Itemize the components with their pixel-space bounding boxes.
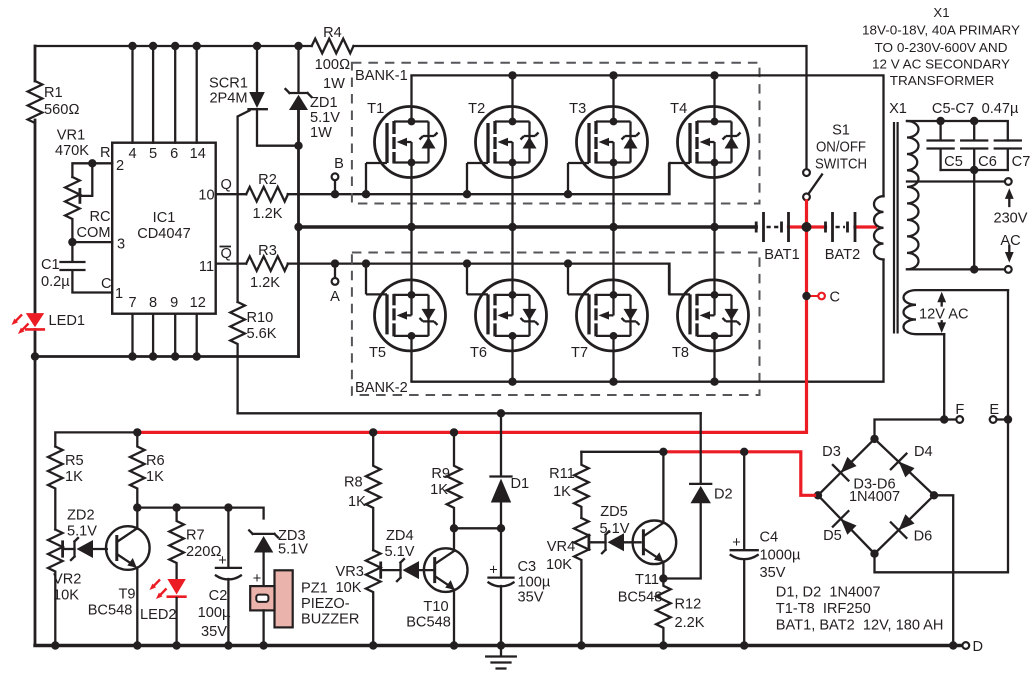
svg-text:6: 6: [170, 146, 178, 162]
svg-text:T9: T9: [118, 587, 135, 603]
svg-text:1.2K: 1.2K: [250, 275, 280, 291]
svg-text:12: 12: [190, 295, 206, 311]
resistor R7 220ohm: [169, 508, 184, 579]
zener ZD2 5.1V: [71, 538, 78, 560]
svg-text:ZD5: ZD5: [600, 504, 628, 520]
svg-text:11: 11: [199, 259, 214, 275]
svg-text:BAT2: BAT2: [825, 247, 860, 263]
resistor R1: [28, 81, 43, 123]
svg-text:ZD4: ZD4: [386, 528, 414, 544]
svg-text:470K: 470K: [55, 143, 89, 159]
SCR1 2P4M: [256, 46, 258, 92]
svg-text:T10: T10: [423, 599, 448, 615]
LED1: [26, 313, 44, 327]
svg-text:SWITCH: SWITCH: [815, 156, 867, 172]
svg-text:T4: T4: [670, 101, 687, 117]
svg-text:T5: T5: [369, 345, 386, 361]
svg-text:D4: D4: [914, 444, 933, 460]
svg-text:X1: X1: [889, 101, 907, 117]
transformer X1 primary winding: [874, 196, 884, 259]
node C terminal: [807, 295, 818, 297]
svg-text:Q: Q: [221, 177, 232, 193]
potentiometer VR4 10K: [574, 518, 589, 646]
svg-text:C: C: [830, 290, 841, 306]
svg-text:35V: 35V: [518, 590, 544, 606]
svg-text:VR4: VR4: [547, 539, 575, 555]
svg-text:TRANSFORMER: TRANSFORMER: [890, 73, 995, 88]
wire: T10 collector to D1/C3 node: [454, 527, 501, 529]
svg-text:D2: D2: [714, 487, 733, 503]
svg-text:T3: T3: [569, 101, 586, 117]
svg-text:S1: S1: [832, 123, 850, 139]
potentiometer VR1 470K: [65, 177, 80, 242]
wire: pin 3 RC COM: [72, 241, 112, 243]
transformer X1 12V AC winding: [904, 290, 1009, 334]
svg-text:1W: 1W: [323, 76, 345, 92]
zener ZD1 5.1V 1W: [286, 46, 312, 97]
buzzer PZ1: [275, 570, 293, 627]
svg-text:VR3: VR3: [336, 564, 364, 580]
transistor T3: [568, 75, 648, 227]
svg-text:PZ1: PZ1: [301, 581, 328, 597]
LED2: [167, 579, 185, 595]
svg-text:0.2µ: 0.2µ: [41, 274, 70, 290]
resistor R6 1K: [130, 432, 145, 507]
capacitor C1 0.2u: [61, 242, 113, 292]
svg-text:5.1V: 5.1V: [67, 524, 97, 540]
IC1 CD4047: [112, 143, 216, 314]
resistor R2 1.2K: [246, 187, 288, 202]
svg-text:T7: T7: [571, 345, 588, 361]
diode D1: [491, 413, 512, 476]
svg-text:5.1V: 5.1V: [599, 521, 629, 537]
node D terminal: [962, 642, 969, 649]
wire: bank2 drain rail to transformer primary bottom: [412, 260, 884, 382]
svg-text:R2: R2: [258, 172, 277, 188]
svg-text:+: +: [218, 553, 227, 569]
wire: secondary top to capacitor bank: [907, 121, 1008, 141]
svg-text:C5-C7: C5-C7: [932, 101, 974, 117]
svg-text:D1, D2 1N4007: D1, D2 1N4007: [776, 585, 881, 601]
svg-text:BANK-2: BANK-2: [355, 380, 408, 396]
svg-text:D6: D6: [914, 529, 933, 545]
capacitor C2 100u 35V: [216, 508, 241, 568]
capacitor C3 100u 35V: [489, 528, 514, 577]
wire: 12V winding bottom to node F and bridge AC input: [875, 334, 945, 439]
svg-text:AC: AC: [1000, 233, 1020, 249]
svg-text:10K: 10K: [336, 580, 362, 596]
svg-text:220Ω: 220Ω: [186, 544, 222, 560]
svg-text:0.47µ: 0.47µ: [982, 101, 1019, 117]
svg-text:2.2K: 2.2K: [675, 615, 705, 631]
node: junction dots on top rail: [128, 42, 136, 50]
svg-text:E: E: [989, 402, 999, 418]
wire: secondary bottom to output terminal: [907, 268, 1005, 270]
svg-text:5.1V: 5.1V: [385, 544, 415, 560]
svg-text:2P4M: 2P4M: [209, 91, 247, 107]
svg-text:D: D: [973, 639, 984, 655]
BANK-1 dashed box: [352, 63, 760, 204]
svg-text:100µ: 100µ: [518, 575, 551, 591]
svg-text:1K: 1K: [430, 482, 448, 498]
svg-text:+: +: [253, 571, 262, 587]
diode D5: [833, 511, 860, 538]
wire: capacitor bottoms to secondary bottom: [941, 170, 1008, 269]
svg-text:1.2K: 1.2K: [252, 206, 282, 222]
wire: pin 10 Q output through R2 to node B: [216, 193, 247, 195]
svg-text:10: 10: [198, 188, 214, 204]
node: junction dots on VSS rail: [31, 352, 39, 360]
wire: R5 top to red bus node: [55, 432, 137, 446]
svg-text:VR1: VR1: [57, 128, 85, 144]
capacitor C5: [928, 121, 954, 170]
wire: red charger positive to bridge: [663, 452, 814, 496]
svg-text:560Ω: 560Ω: [44, 102, 80, 118]
ground symbol: [486, 646, 516, 669]
svg-text:3: 3: [117, 237, 125, 253]
svg-text:D5: D5: [823, 528, 842, 544]
wire: pin 2 to VR1 node: [72, 163, 112, 177]
resistor R5 1K: [48, 447, 63, 530]
svg-text:R9: R9: [431, 466, 450, 482]
svg-text:1W: 1W: [310, 125, 332, 141]
svg-text:B: B: [334, 156, 344, 172]
svg-text:1: 1: [115, 286, 123, 302]
svg-text:BUZZER: BUZZER: [301, 612, 359, 628]
wire: bridge negative output to bottom rail: [934, 495, 953, 645]
wire: center source bus to batteries: [299, 225, 757, 228]
svg-text:D1: D1: [511, 476, 530, 492]
resistor R9 1K: [447, 432, 462, 528]
wire: top supply rail: [35, 46, 807, 169]
svg-text:18V-0-18V, 40A PRIMARY: 18V-0-18V, 40A PRIMARY: [862, 23, 1020, 38]
node: red bus junction dots: [133, 428, 141, 436]
wire: red battery link S1 to node C to red bus: [137, 201, 806, 433]
transistor T7: [568, 227, 648, 382]
svg-text:R7: R7: [186, 528, 205, 544]
wire: bank1 drain rail to transformer primary top: [412, 75, 884, 196]
svg-text:ZD1: ZD1: [310, 95, 338, 111]
diode D4: [891, 454, 918, 481]
battery BAT1: [789, 225, 826, 228]
svg-text:35V: 35V: [760, 565, 786, 581]
svg-text:R4: R4: [323, 25, 342, 41]
zener ZD4 5.1V: [397, 559, 404, 581]
svg-text:12V AC: 12V AC: [919, 307, 969, 323]
svg-text:7: 7: [128, 295, 136, 311]
svg-text:T11: T11: [635, 572, 659, 588]
svg-text:R8: R8: [344, 475, 363, 491]
resistor R4 100ohm 1W: [312, 39, 354, 54]
svg-text:T8: T8: [672, 345, 689, 361]
svg-text:R5: R5: [65, 453, 84, 469]
node: bottom rail junction dots (right): [369, 641, 377, 649]
wire: T11 emitter node to D2 anode: [663, 503, 700, 578]
svg-text:9: 9: [170, 295, 178, 311]
diode D6: [891, 511, 918, 538]
svg-text:R6: R6: [146, 453, 165, 469]
resistor R10 5.6K (SCR gate): [230, 302, 245, 413]
svg-text:1K: 1K: [146, 469, 164, 485]
svg-text:+: +: [732, 535, 741, 551]
zener ZD5 5.1V: [602, 531, 609, 553]
BANK-2 dashed box: [352, 253, 760, 396]
resistor R8 1K: [366, 432, 381, 550]
svg-text:SCR1: SCR1: [209, 76, 248, 92]
svg-text:R3: R3: [258, 243, 277, 259]
bridge rectifier D3-D6 frame: [818, 439, 934, 554]
wire: fault line R10 to D1/D2: [238, 412, 701, 414]
12V AC span arrows: [941, 301, 943, 326]
diode D2: [690, 413, 711, 484]
wire: R2 to node B and bank1 gate bus: [288, 163, 670, 194]
svg-text:X1: X1: [933, 5, 949, 20]
transistor T8: [669, 227, 749, 382]
svg-text:1K: 1K: [553, 484, 571, 500]
svg-text:1K: 1K: [348, 494, 366, 510]
svg-text:A: A: [330, 289, 340, 305]
svg-text:C1: C1: [41, 257, 60, 273]
transistor T2: [467, 75, 547, 227]
potentiometer VR2 10K: [48, 530, 63, 646]
svg-text:1000µ: 1000µ: [760, 548, 801, 564]
node: bottom rail junction dots (left): [51, 641, 59, 649]
svg-text:5.6K: 5.6K: [247, 326, 277, 342]
diode D3: [833, 454, 860, 481]
wire: T9 collector node line: [137, 508, 263, 519]
transistor T5: [366, 227, 446, 382]
svg-text:CD4047: CD4047: [137, 226, 191, 242]
wire: R11 top / T11 collector to charger line: [581, 451, 663, 453]
svg-text:5: 5: [149, 146, 157, 162]
svg-text:R12: R12: [675, 597, 702, 613]
svg-text:LED1: LED1: [49, 313, 86, 329]
svg-text:T1: T1: [367, 101, 384, 117]
switch S1: [803, 169, 810, 176]
wire: IC bottom pin risers 7,8,9,12: [133, 314, 197, 357]
transistor T10 BC548: [424, 548, 468, 592]
svg-text:PIEZO-: PIEZO-: [301, 596, 350, 612]
resistor R3 1.2K: [246, 256, 288, 271]
svg-text:RC: RC: [89, 209, 110, 225]
potentiometer VR3 10K: [366, 550, 381, 645]
svg-text:R: R: [100, 145, 111, 161]
resistor R12 2.2K: [656, 579, 671, 646]
svg-text:BAT1, BAT2 12V, 180 AH: BAT1, BAT2 12V, 180 AH: [776, 618, 944, 634]
wire: 12V winding top to node E and bridge AC input: [875, 290, 1009, 572]
wire: left rail: [34, 46, 37, 646]
svg-text:+: +: [489, 563, 498, 579]
node B terminal: [332, 173, 339, 180]
svg-text:1N4007: 1N4007: [849, 489, 900, 505]
svg-text:C5: C5: [944, 154, 963, 170]
svg-text:T1-T8 IRF250: T1-T8 IRF250: [776, 601, 871, 617]
capacitor C6: [961, 121, 987, 170]
wire: VSS ground rail under IC: [35, 355, 299, 358]
svg-text:10K: 10K: [53, 588, 79, 604]
svg-text:5.1V: 5.1V: [278, 542, 308, 558]
transistor T9 BC548: [106, 526, 150, 570]
svg-text:5.1V: 5.1V: [310, 110, 340, 126]
transistor T11 BC548: [633, 521, 677, 565]
wire: R3 to node A and bank2 gate bus: [288, 264, 670, 295]
svg-text:12 V AC SECONDARY: 12 V AC SECONDARY: [872, 56, 1010, 71]
capacitor C7: [995, 141, 1021, 171]
zener ZD3 5.1V: [249, 530, 278, 537]
wire: IC top pin risers 4,5,6,14: [133, 46, 197, 143]
transistor T6: [467, 227, 547, 382]
svg-text:T2: T2: [468, 101, 485, 117]
svg-text:1K: 1K: [65, 469, 83, 485]
resistor R11 1K: [574, 452, 589, 518]
capacitor C4 1000u 35V: [731, 452, 758, 550]
transformer X1 core: [894, 122, 898, 334]
svg-text:4: 4: [128, 146, 136, 162]
node A terminal: [332, 278, 339, 285]
svg-text:C3: C3: [518, 559, 537, 575]
svg-text:C: C: [101, 276, 112, 292]
svg-text:C7: C7: [1012, 154, 1031, 170]
svg-text:BC548: BC548: [618, 590, 663, 606]
svg-text:TO 0-230V-600V AND: TO 0-230V-600V AND: [875, 40, 1008, 55]
svg-text:100µ: 100µ: [198, 605, 231, 621]
svg-text:F: F: [955, 402, 964, 418]
transistor T4: [669, 75, 749, 227]
svg-text:100Ω: 100Ω: [315, 57, 351, 73]
svg-text:35V: 35V: [201, 624, 227, 640]
svg-text:R11: R11: [549, 466, 575, 482]
wire: pin 11 Qbar output through R3 to node A: [216, 262, 247, 264]
svg-text:C4: C4: [760, 530, 779, 546]
svg-text:VR2: VR2: [53, 572, 81, 588]
svg-text:10K: 10K: [546, 557, 572, 573]
transistor T1: [366, 75, 446, 227]
svg-text:230V: 230V: [993, 211, 1027, 227]
wire: bottom ground rail: [35, 644, 962, 647]
svg-text:8: 8: [149, 295, 157, 311]
svg-text:BC548: BC548: [88, 603, 133, 619]
svg-text:IC1: IC1: [153, 210, 176, 226]
svg-text:LED2: LED2: [140, 607, 177, 623]
svg-text:C2: C2: [209, 588, 228, 604]
svg-text:COM: COM: [76, 225, 110, 241]
svg-text:R10: R10: [247, 310, 274, 326]
svg-text:2: 2: [116, 158, 124, 174]
transformer X1 secondary 230V winding: [907, 121, 919, 269]
svg-text:R1: R1: [44, 85, 63, 101]
svg-text:T6: T6: [470, 345, 487, 361]
svg-text:Q: Q: [221, 246, 232, 262]
svg-text:D3: D3: [822, 444, 841, 460]
svg-text:BAT1: BAT1: [764, 247, 799, 263]
svg-text:ZD2: ZD2: [67, 508, 95, 524]
wire: 230V tap to output terminal: [907, 180, 1005, 182]
230V AC label with span arrows: [1008, 198, 1010, 253]
svg-text:BANK-1: BANK-1: [355, 68, 408, 84]
svg-text:C6: C6: [978, 154, 997, 170]
svg-text:BC548: BC548: [406, 615, 451, 631]
svg-text:14: 14: [190, 146, 206, 162]
battery BAT2: [855, 225, 876, 228]
svg-text:ON/OFF: ON/OFF: [816, 140, 866, 156]
